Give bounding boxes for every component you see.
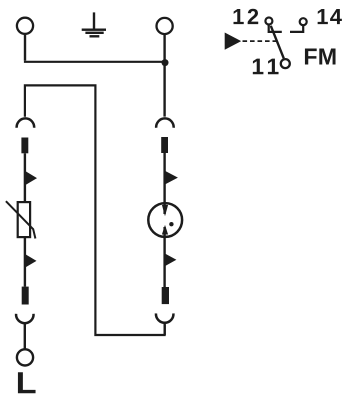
plug socket arc left bottom [16,314,34,323]
pin 14 fixed contact wire [290,26,303,32]
wire left branch upper [24,153,26,202]
gas discharge tube [148,203,182,237]
terminal circle L [17,349,33,365]
wire from top-right terminal down through junction [163,35,165,117]
wire right branch upper [163,153,165,214]
wire inverted-U from left branch top across to series leg [25,85,165,335]
plug socket arc right top [156,118,174,127]
node junction dot on bus [162,59,169,66]
remote indication contact FM [225,18,307,69]
pin 12 fixed contact wire [269,25,282,32]
svg-text:12: 12 [232,4,261,29]
wire horizontal bus [24,61,165,63]
wire right branch lower [163,227,165,287]
svg-text:L: L [16,366,37,398]
terminal circle top-left [17,18,33,34]
thermal disconnect arrow right upper [165,171,178,185]
plug pin contact left bottom [22,287,29,305]
svg-text:14: 14 [316,4,343,29]
thermal disconnect arrow right lower [165,253,177,266]
wire socket right to bottom corner [163,323,165,335]
thermal disconnect arrow left lower [25,254,37,268]
pin 14 contact circle [300,18,307,25]
pin 12 contact circle [265,18,272,25]
svg-text:FM: FM [303,44,337,70]
plug pin contact left top [21,138,28,154]
plug pin contact right top [161,137,168,153]
wire from top-left terminal to bus [24,35,26,61]
svg-text:11: 11 [251,53,283,79]
plug pin contact right bottom [162,287,169,304]
wire socket to L terminal [24,324,26,349]
actuator dashed link [243,40,278,42]
thermal disconnect arrow left upper [25,171,37,186]
wire left branch lower [24,237,26,287]
pin 11 contact circle [281,59,290,68]
switch arm [271,26,284,59]
plug socket arc right bottom [156,313,174,322]
terminal circle top-right [157,18,173,34]
ground symbol [82,12,106,37]
actuator arrow [225,33,242,50]
plug socket arc left top [17,118,35,127]
varistor [18,202,30,237]
